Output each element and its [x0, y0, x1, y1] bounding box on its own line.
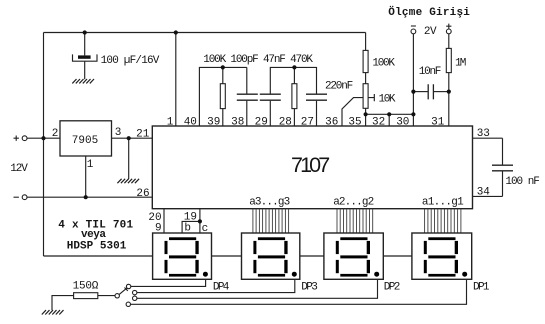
svg-text:220nF: 220nF: [325, 80, 353, 92]
wire pin 19 down to node: [199, 209, 201, 222]
ground at 7905/pin21 node: [117, 179, 139, 183]
wire DP1 line: [131, 279, 467, 304]
node group B / R2: [292, 65, 296, 69]
svg-text:10nF: 10nF: [419, 66, 442, 78]
switch contact DP4: [126, 284, 130, 288]
wire 7905 pin1 down: [85, 156, 87, 197]
wire pin 36 to pot wiper: [342, 98, 363, 126]
wire R 470K leads (pin28): [293, 67, 295, 126]
svg-text:21: 21: [136, 128, 150, 140]
terminal + (input): [446, 29, 451, 34]
wire R 100K leads (pin39): [222, 67, 224, 126]
resistor R2 470K (pin28): [292, 84, 297, 109]
svg-text:150Ω: 150Ω: [73, 281, 99, 293]
ground under 150R: [42, 310, 64, 314]
wire pin 34 stub: [473, 195, 503, 197]
switch pole contact: [115, 294, 119, 298]
display DP3 (7-seg): [242, 233, 300, 279]
resistor R5 1M: [446, 48, 451, 72]
wire group B top (pins 29-27): [270, 67, 316, 93]
svg-text:27: 27: [301, 116, 314, 128]
svg-text:100K: 100K: [372, 58, 395, 70]
resistor R3 100K (ref divider): [363, 50, 368, 72]
wire C 220nF bottom lead (pin27): [316, 101, 318, 126]
wire DP2 line: [137, 279, 378, 298]
display DP4 (7-seg): [153, 233, 212, 279]
svg-text:veya: veya: [81, 229, 106, 241]
svg-text:34: 34: [477, 187, 491, 199]
potentiometer R4 10K: [363, 84, 368, 109]
switch arm: [119, 288, 128, 295]
node + / left rail: [41, 136, 45, 140]
capacitor C3 47nF (pin29): [260, 94, 281, 100]
svg-text:32: 32: [372, 116, 385, 128]
resistor R1 100K (pin39): [220, 84, 225, 109]
terminal - (12V): [22, 195, 27, 200]
wire pin 33 stub: [473, 137, 503, 139]
svg-text:26: 26: [136, 188, 149, 200]
svg-text:28: 28: [279, 116, 292, 128]
wire display4-display3 link: [212, 255, 242, 257]
svg-text:DP3: DP3: [301, 282, 318, 294]
wire top V+ rail: [44, 32, 366, 34]
switch contact DP2: [133, 296, 137, 300]
wire ground tap at pin21 node: [128, 138, 130, 179]
wire 100uF top lead: [84, 33, 86, 56]
wire ref/common bus (35-32-30): [366, 113, 414, 115]
wire group A top (pins 40-38): [199, 67, 246, 126]
wire pins 20/9 column: [163, 209, 165, 233]
capacitor C5 10nF: [428, 84, 433, 99]
wire 100K to 10K pot link: [365, 73, 367, 84]
svg-text:31: 31: [431, 116, 445, 128]
svg-text:39: 39: [207, 116, 220, 128]
wire + terminal to 7905 pin2: [27, 137, 60, 139]
node group A / R1: [221, 65, 225, 69]
svg-text:33: 33: [477, 128, 490, 140]
svg-text:7107: 7107: [291, 153, 330, 177]
wire C 47nF bottom lead (pin29): [269, 101, 271, 126]
wire 100nF leads right column: [502, 138, 504, 196]
wire left V+ rail: [43, 33, 45, 257]
switch contact DP3: [133, 290, 137, 294]
svg-text:DP4: DP4: [213, 281, 230, 293]
svg-text:100 µF/16V: 100 µF/16V: [101, 55, 160, 67]
svg-text:1: 1: [167, 116, 174, 128]
svg-text:35: 35: [348, 116, 361, 128]
node top rail / pin1: [174, 30, 178, 34]
node bus / pin32: [387, 112, 391, 116]
wire - rail to pin 26: [27, 196, 152, 198]
svg-text:DP2: DP2: [384, 282, 401, 294]
wire 150R left lead to ground: [52, 296, 74, 311]
display DP2 (7-seg): [324, 233, 383, 279]
svg-text:DP1: DP1: [473, 282, 490, 294]
node 10nF right / pin31: [447, 90, 451, 94]
node bus / pin35: [364, 112, 368, 116]
wire pot wiper arm right: [368, 94, 374, 101]
wire DP4 line: [131, 279, 206, 286]
wire pin 35: [365, 114, 367, 126]
node 10nF left: [411, 90, 415, 94]
wire DP3 line: [137, 279, 295, 292]
wire 100uF bottom lead: [84, 61, 86, 79]
svg-text:2V: 2V: [424, 26, 437, 38]
svg-text:100K 100pF 47nF 470K: 100K 100pF 47nF 470K: [203, 54, 313, 66]
resistor R6 150 ohm: [74, 293, 98, 299]
switch contact DP1: [126, 302, 130, 306]
svg-text:1: 1: [87, 159, 94, 171]
segment bus to display1: [425, 209, 461, 233]
wire display anode rail: [44, 255, 153, 257]
wire display3-display2 link: [300, 255, 324, 257]
node pin19 b/c: [198, 219, 202, 223]
svg-text:Ölçme Girişi: Ölçme Girişi: [388, 6, 470, 19]
capacitor C2 100pF (pin38): [237, 94, 258, 100]
svg-text:1M: 1M: [455, 57, 466, 69]
pin labels top row: [167, 116, 445, 128]
ground under C1: [72, 79, 94, 83]
svg-text:7905: 7905: [72, 135, 98, 147]
wire 7905 pin3 to pin 21: [112, 137, 153, 139]
wire pin 1 column: [175, 33, 177, 127]
node pin21 / ground: [127, 136, 131, 140]
wire C 100pF leads (pin38): [246, 67, 248, 126]
svg-text:3: 3: [115, 127, 122, 139]
wire segment c branch: [199, 221, 201, 233]
svg-text:a1...g1: a1...g1: [422, 196, 464, 208]
wire 10nF right lead: [434, 91, 449, 93]
svg-text:12V: 12V: [10, 163, 28, 175]
wire segment b branch: [182, 221, 200, 233]
terminal - (input): [411, 29, 416, 34]
terminal + (12V): [22, 136, 27, 141]
svg-text:29: 29: [255, 116, 268, 128]
svg-text:38: 38: [231, 116, 244, 128]
node bus / pin30: [411, 112, 415, 116]
wire pin 32: [388, 114, 390, 126]
display DP1 (7-seg): [412, 233, 472, 279]
wire V+ drop to 100K: [365, 33, 367, 51]
svg-text:HDSP 5301: HDSP 5301: [67, 241, 127, 253]
svg-text:10K: 10K: [379, 94, 396, 106]
capacitor C6 100nF: [492, 165, 513, 171]
svg-text:30: 30: [396, 116, 409, 128]
capacitor C4 220nF (pin27): [306, 94, 327, 100]
svg-text:40: 40: [184, 116, 197, 128]
segment bus to display3: [253, 209, 289, 233]
wire 10nF left lead: [413, 91, 427, 93]
regulator U2 7905 box: [60, 121, 112, 156]
wire display2-display1 link: [383, 255, 412, 257]
wire 150R right lead to switch pole: [98, 295, 115, 297]
wire minus input column: [412, 34, 414, 115]
wire 1M to pin 31: [448, 73, 450, 126]
svg-text:a3...g3: a3...g3: [249, 196, 290, 208]
node top rail / C1: [83, 30, 87, 34]
capacitor C1 100uF/16V electrolytic: [73, 54, 98, 61]
wire plus input to 1M: [448, 34, 450, 49]
svg-text:a2...g2: a2...g2: [333, 196, 374, 208]
wire pot bottom to bus: [365, 108, 367, 114]
wire pin 30: [412, 114, 414, 126]
IC U1 7107 box: [152, 126, 472, 209]
segment bus to display2: [337, 209, 373, 233]
node - rail / 7905 pin1: [84, 195, 88, 199]
svg-text:2: 2: [52, 128, 59, 140]
svg-text:36: 36: [325, 116, 338, 128]
svg-text:100 nF: 100 nF: [505, 176, 540, 188]
